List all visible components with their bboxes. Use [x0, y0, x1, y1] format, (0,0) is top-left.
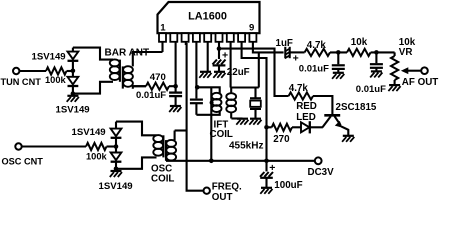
label 10k	[351, 37, 368, 48]
label 22uF	[227, 67, 250, 78]
ground	[110, 171, 122, 177]
inductor T3 IFT secondary	[226, 88, 236, 119]
wire	[231, 117, 242, 119]
ground	[67, 96, 79, 102]
wire	[292, 126, 301, 128]
node junction	[195, 85, 200, 90]
label DC3V	[308, 167, 335, 178]
varactor D2 1SV149 (lower)	[68, 71, 79, 94]
label VR	[399, 47, 413, 58]
resistor R1 100k	[46, 67, 67, 74]
label 1uF	[276, 38, 293, 49]
svg-text:10k: 10k	[399, 37, 416, 48]
svg-text:0.01uF: 0.01uF	[299, 64, 329, 75]
svg-text:DC3V: DC3V	[308, 167, 335, 178]
label OSC CNT	[2, 156, 44, 166]
label 100uF	[274, 180, 302, 191]
svg-text:RED: RED	[296, 101, 317, 112]
label TUN CNT	[1, 77, 42, 87]
wire	[267, 126, 272, 128]
svg-text:270: 270	[273, 134, 290, 145]
wire	[19, 70, 46, 72]
capacitor C2 22uF	[213, 49, 229, 72]
svg-text:LA1600: LA1600	[188, 10, 227, 22]
svg-text:9: 9	[249, 22, 254, 33]
node junction	[336, 50, 341, 55]
wire	[219, 49, 289, 96]
node junction	[374, 50, 379, 55]
wire pin8	[242, 42, 267, 161]
ground	[199, 72, 211, 78]
label LA1600	[188, 10, 227, 22]
svg-text:100k: 100k	[45, 75, 67, 85]
wire	[313, 96, 332, 115]
label 0.01uF	[299, 64, 329, 75]
capacitor C1 0.01uF	[169, 86, 182, 106]
resistor R6 4.7k	[289, 92, 313, 99]
wire	[310, 126, 323, 128]
label 455kHz	[229, 141, 263, 152]
svg-text:OUT: OUT	[212, 192, 233, 203]
svg-text:4.7k: 4.7k	[307, 40, 327, 51]
label OUT	[212, 192, 233, 203]
svg-text:455kHz: 455kHz	[229, 141, 263, 152]
svg-text:1SV149: 1SV149	[32, 52, 66, 63]
capacitor C6 0.01uF	[332, 52, 345, 72]
svg-text:1SV149: 1SV149	[99, 181, 133, 192]
svg-text:LED: LED	[296, 112, 316, 123]
svg-text:4.7k: 4.7k	[289, 83, 309, 94]
wire IFT tap	[210, 87, 212, 161]
svg-text:0.01uF: 0.01uF	[356, 84, 386, 95]
ground	[213, 72, 225, 78]
label LED	[296, 112, 316, 123]
resistor R4 4.7k	[305, 49, 330, 56]
label 1SV149 (upper)	[72, 127, 106, 138]
capacitor C3 (IFT resonant)	[190, 87, 203, 115]
label COIL	[151, 174, 174, 185]
wire	[73, 48, 113, 60]
label 470	[150, 72, 166, 83]
wire	[133, 85, 146, 87]
ground	[169, 106, 181, 112]
varactor D4 1SV149 (lower)	[111, 147, 122, 169]
pin 1 label	[160, 22, 166, 33]
ground	[342, 136, 354, 142]
svg-text:COIL: COIL	[151, 174, 174, 185]
label 1SV149 (lower)	[99, 181, 133, 192]
wire pin2	[175, 42, 177, 86]
ground	[388, 85, 400, 91]
diode D5 RED LED	[301, 121, 310, 133]
label OSC	[151, 164, 172, 175]
resistor R2 470	[146, 83, 169, 90]
label 4.7k	[289, 83, 309, 94]
capacitor C4 100uF	[260, 161, 275, 188]
label BAR ANT	[105, 47, 150, 58]
svg-text:470: 470	[150, 72, 166, 83]
label 1SV149 (lower)	[56, 104, 90, 115]
wire DC bus	[166, 160, 315, 162]
label 270	[273, 134, 290, 145]
node junction	[217, 46, 222, 51]
label 1SV149 (upper)	[32, 52, 66, 63]
capacitor C7 0.01uF	[370, 52, 383, 71]
svg-text:0.01uF: 0.01uF	[136, 90, 166, 101]
node junction	[114, 144, 119, 149]
ground	[249, 119, 261, 125]
wire	[22, 145, 86, 147]
varactor D3 1SV149 (upper)	[111, 122, 122, 147]
svg-text:1SV149: 1SV149	[72, 127, 106, 138]
op-amp U1 LA1600 body	[158, 2, 260, 33]
wire	[107, 145, 117, 147]
label COIL	[210, 129, 233, 140]
wire pin5	[207, 42, 209, 72]
pin 9 label	[249, 22, 254, 33]
svg-text:VR: VR	[399, 47, 413, 58]
wire	[258, 52, 260, 87]
label IFT	[214, 119, 229, 130]
svg-text:OSC CNT: OSC CNT	[2, 156, 44, 166]
node junction	[264, 159, 269, 164]
ground	[332, 73, 344, 79]
svg-text:100uF: 100uF	[274, 180, 302, 191]
svg-text:10k: 10k	[351, 37, 368, 48]
inductor T1 primary (BAR ANT left winding)	[110, 59, 120, 81]
svg-text:TUN CNT: TUN CNT	[1, 77, 42, 87]
wire	[330, 51, 347, 53]
wire IFT top rail	[196, 87, 219, 93]
wire pin3	[186, 42, 204, 191]
svg-text:2SC1815: 2SC1815	[336, 102, 377, 113]
terminal DC3V	[315, 157, 322, 164]
svg-text:100k: 100k	[86, 152, 108, 162]
wire rail to crystal	[231, 86, 259, 88]
label FREQ.	[212, 182, 242, 193]
potentiometer VR 10k	[391, 52, 398, 85]
wire pin6	[218, 42, 220, 49]
wire	[116, 122, 157, 136]
svg-text:COIL: COIL	[210, 129, 233, 140]
resistor R3 100k	[86, 143, 107, 150]
terminal TUN CNT	[13, 68, 19, 74]
node junction	[173, 84, 178, 89]
node junction	[114, 167, 119, 172]
wire	[73, 82, 113, 94]
node junction	[209, 159, 214, 164]
label 0.01uF	[356, 84, 386, 95]
label 100k	[45, 75, 67, 85]
svg-text:AF OUT: AF OUT	[402, 77, 438, 88]
ground	[236, 119, 248, 125]
label 100k	[86, 152, 108, 162]
label AF OUT	[402, 77, 438, 88]
transistor Q1 2SC1815	[323, 115, 349, 135]
wiper arrow	[401, 67, 421, 74]
svg-text:FREQ.: FREQ.	[212, 182, 242, 193]
wire	[175, 129, 187, 131]
capacitor C5 1uF	[285, 47, 299, 65]
label 4.7k	[307, 40, 327, 51]
svg-text:1SV149: 1SV149	[56, 104, 90, 115]
inductor T2 OSC secondary	[166, 131, 176, 161]
ceramic filter X1 455kHz	[250, 88, 261, 119]
wire	[371, 51, 395, 53]
wire pin4	[195, 42, 197, 88]
label 10k	[399, 37, 416, 48]
wire	[116, 157, 157, 168]
ground	[370, 71, 382, 77]
resistor R5 10k	[347, 49, 371, 56]
label RED	[296, 101, 317, 112]
wire IFT bottom rail	[196, 110, 219, 115]
IC pins 1-9	[159, 33, 256, 42]
terminal AF OUT	[421, 67, 428, 74]
wire	[289, 51, 304, 53]
varactor D1 1SV149 (upper)	[68, 48, 79, 71]
inductor T3 IFT primary	[212, 93, 222, 112]
node tap junction	[210, 101, 214, 105]
wire	[169, 85, 176, 87]
label 0.01uF	[136, 90, 166, 101]
label 2SC1815	[336, 102, 377, 113]
node junction	[71, 69, 76, 74]
resistor R7 270	[272, 124, 292, 131]
wire	[67, 70, 73, 72]
ground	[260, 188, 272, 194]
terminal OSC CNT	[15, 143, 21, 149]
wire pin9	[253, 42, 284, 53]
inductor T1 secondary (BAR ANT right winding)	[123, 52, 163, 89]
terminal FREQ OUT	[204, 188, 210, 194]
svg-text:1uF: 1uF	[276, 38, 293, 49]
wire pin7	[230, 42, 232, 88]
inductor T2 OSC primary	[153, 135, 163, 157]
wire pin1	[161, 42, 163, 52]
node junction	[264, 125, 269, 130]
svg-text:1: 1	[160, 22, 166, 33]
node junction	[71, 91, 76, 96]
